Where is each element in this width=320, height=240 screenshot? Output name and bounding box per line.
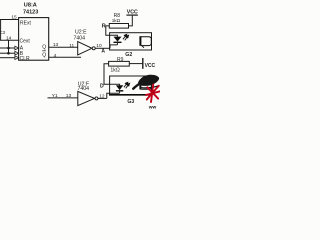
svg-text:Q: Q [42, 45, 46, 51]
LED G2 [114, 37, 122, 42]
svg-text:CLR: CLR [20, 56, 30, 62]
wire pin14 Cext [0, 39, 19, 41]
svg-text:74123: 74123 [23, 10, 38, 16]
svg-text:15: 15 [11, 15, 17, 21]
svg-text:ww: ww [148, 106, 157, 110]
phototransistor G2 [139, 36, 141, 46]
wire Qbar output pin4 [49, 56, 81, 58]
inverter U2:E bubble [92, 47, 95, 50]
wire input CLR [0, 57, 15, 59]
wire R8 right to VCC [129, 16, 133, 26]
svg-text:U8:A: U8:A [24, 3, 37, 9]
svg-text:4: 4 [54, 53, 57, 59]
svg-text:13: 13 [53, 42, 59, 48]
background [0, 0, 160, 110]
svg-text:D: D [100, 84, 104, 90]
svg-text:13: 13 [66, 93, 72, 99]
inverter U2:F triangle [78, 91, 95, 105]
input wedge A [15, 46, 19, 50]
wire U2:F output pin12 [98, 97, 107, 99]
svg-text:7404: 7404 [74, 35, 86, 41]
optocoupler G3 bottom edge thick [109, 94, 152, 96]
light arrows G2 [123, 34, 129, 40]
resistor R9 body [109, 61, 130, 66]
svg-text:C3: C3 [0, 30, 6, 35]
wire input B [0, 52, 15, 54]
wire R8 left drop to G2 anode [106, 26, 118, 37]
input wedge B [15, 51, 19, 55]
wire jog into G3 cathode [107, 93, 120, 98]
svg-text:12: 12 [99, 93, 105, 99]
phototransistor G3 [139, 80, 141, 90]
annotation red star center [151, 90, 155, 94]
svg-text:1kΩ: 1kΩ [110, 67, 119, 73]
optocoupler G3 box [110, 76, 152, 95]
input wedge CLR [15, 56, 19, 60]
annotation black swoosh blob [138, 75, 159, 86]
wire U2:E output net A [95, 47, 110, 49]
svg-text:RExt: RExt [20, 20, 31, 26]
svg-text:VCC: VCC [145, 63, 156, 69]
svg-text:G3: G3 [127, 99, 134, 105]
wire jog into G2 cathode [110, 45, 117, 48]
LED G3 [116, 85, 123, 90]
svg-text:Cext: Cext [20, 39, 31, 45]
junction dot B [7, 52, 10, 55]
annotation swoosh hook [141, 86, 159, 88]
IC U8 74123 body [19, 18, 49, 61]
svg-text:Y1: Y1 [52, 93, 58, 99]
svg-text:G2: G2 [125, 52, 132, 58]
optocoupler G2 box [110, 33, 152, 50]
wire Q output pin13 [49, 46, 78, 48]
junction dot A [7, 47, 10, 50]
wire R9 left drop to G3 anode [104, 64, 120, 86]
inverter U2:E triangle [78, 42, 92, 55]
svg-text:11: 11 [69, 43, 74, 49]
light arrows G3 [124, 82, 130, 88]
svg-text:14: 14 [6, 35, 12, 41]
svg-text:Q: Q [42, 52, 46, 58]
svg-text:A: A [101, 49, 105, 55]
wire U2:F input Y1 [48, 97, 78, 99]
wire vertical tie A-B [8, 40, 10, 53]
svg-text:1kΩ: 1kΩ [112, 18, 121, 23]
power VCC bottom bar [142, 58, 144, 69]
annotation red star scribble [146, 85, 160, 103]
resistor R8 body [109, 24, 128, 29]
svg-text:R: R [102, 23, 106, 29]
wire pin15 RExt [0, 19, 19, 21]
wire R9 right to VCC bar [129, 63, 143, 65]
inverter U2:F bubble [95, 97, 98, 100]
annotation black swoosh tail thin [133, 82, 143, 89]
wire input A [0, 47, 15, 49]
svg-text:7404: 7404 [78, 86, 90, 92]
wire left-edge vertical (C3 net) [0, 20, 2, 41]
